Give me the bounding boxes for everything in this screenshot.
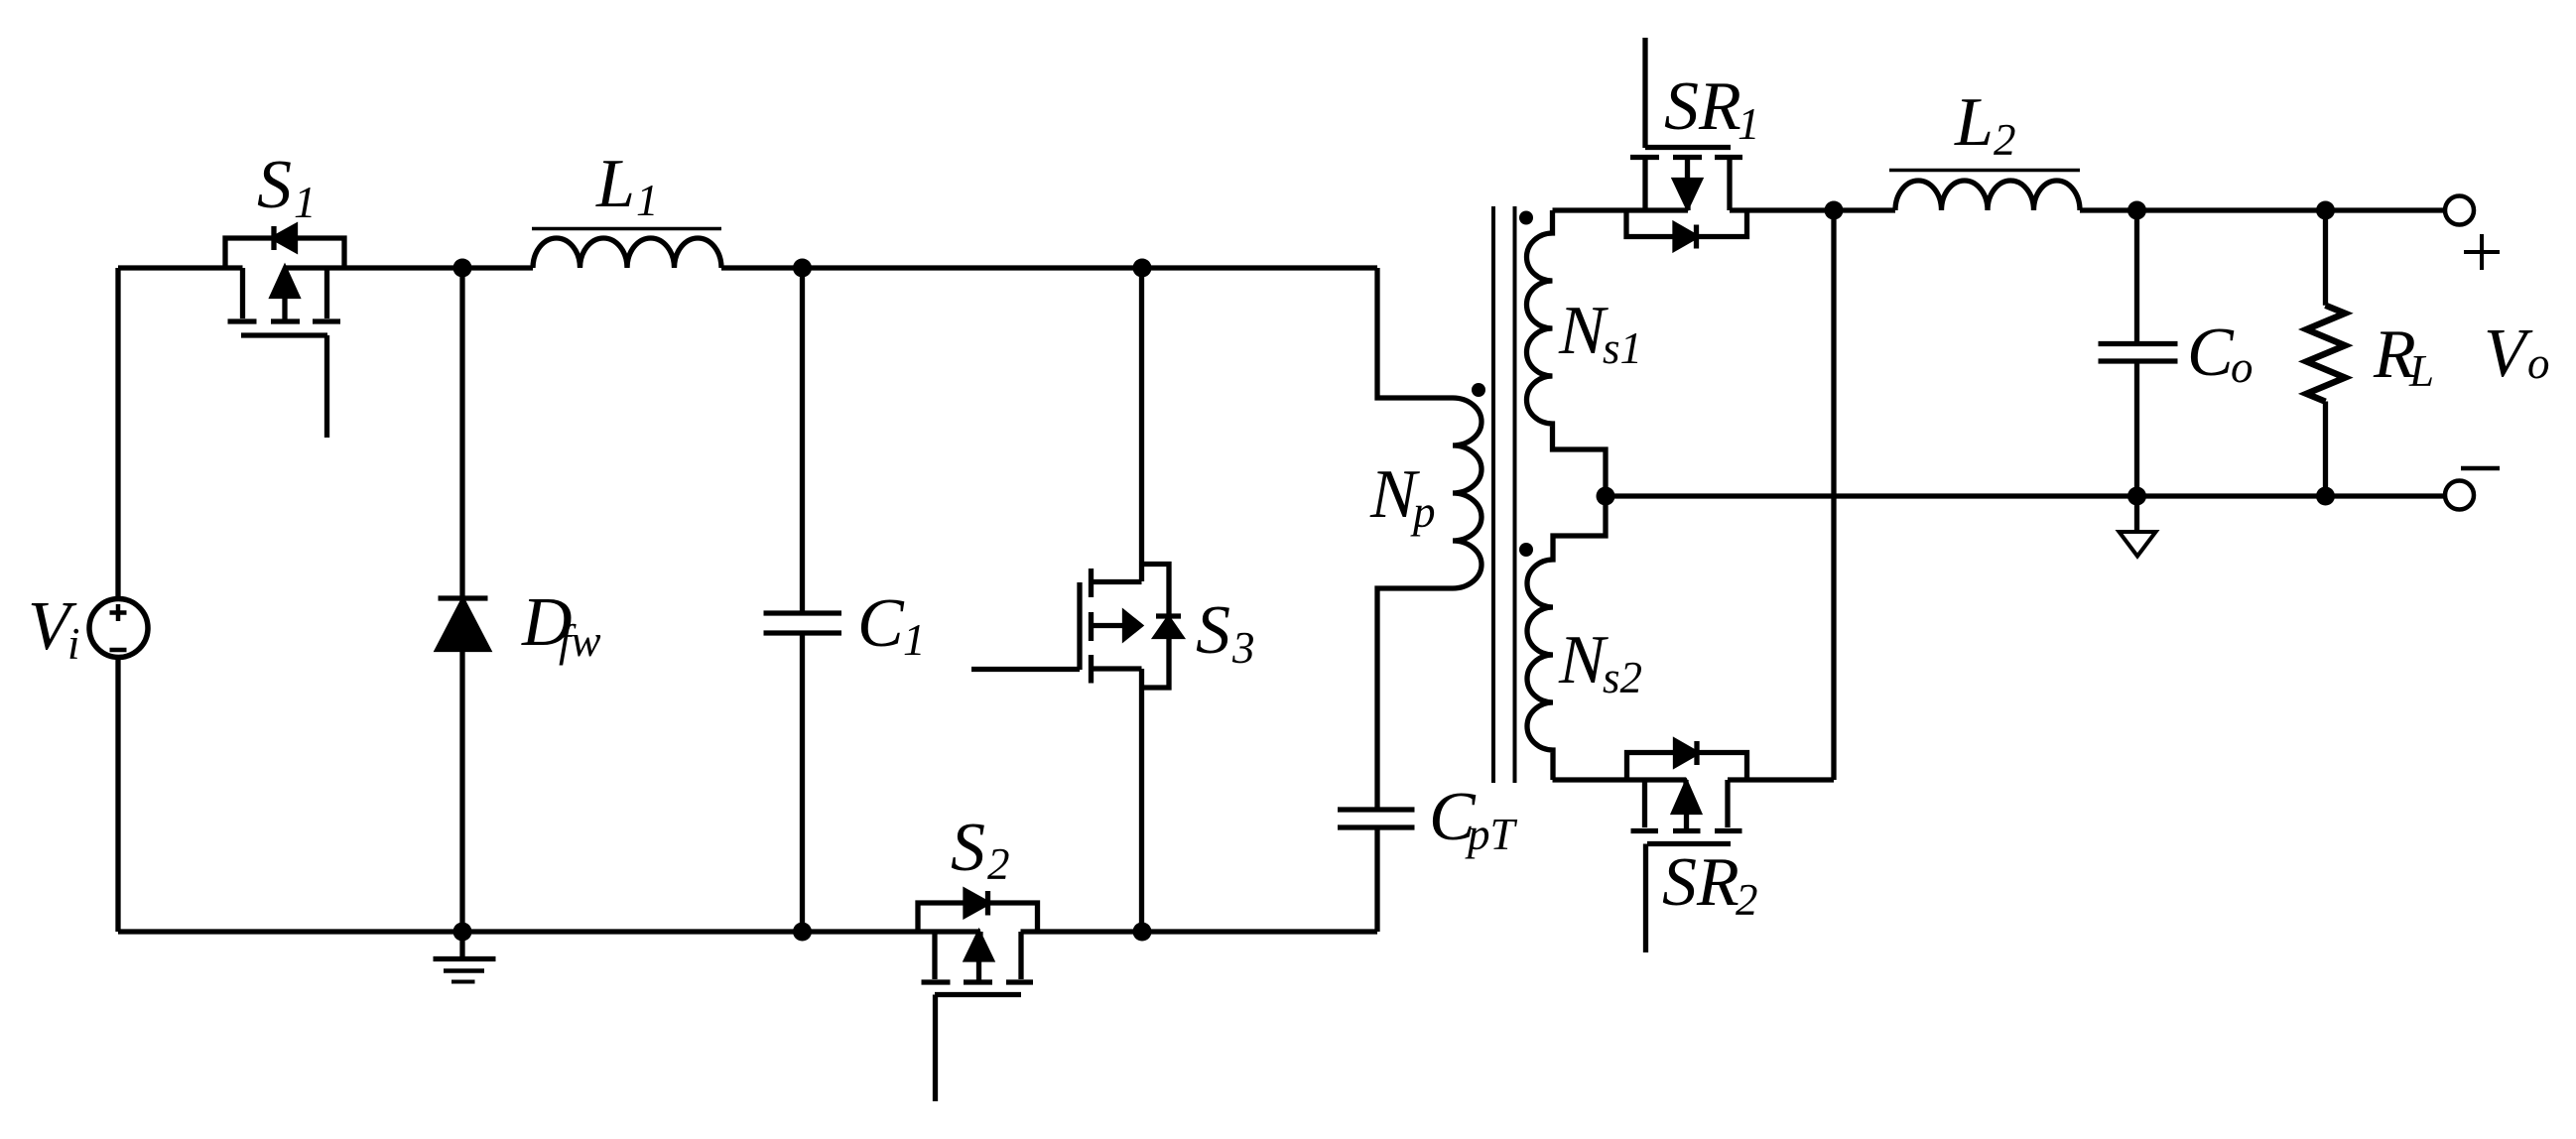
inductor L1: [532, 229, 721, 269]
node dot center tap: [1597, 487, 1615, 506]
svg-text:V: V: [2484, 316, 2533, 392]
ground output: [2120, 496, 2156, 557]
wire bottom rail left segment: [118, 929, 980, 934]
label L2: [1954, 84, 2016, 165]
label S3: [1196, 592, 1255, 673]
node dot F (S3 bottom / S2 drain): [1133, 923, 1152, 942]
label CpT: [1429, 779, 1518, 859]
svg-text:L: L: [1954, 84, 1994, 161]
wire left vertical upper: [115, 268, 120, 599]
node dot J (Co bottom / ground): [2127, 487, 2146, 506]
svg-text:1: 1: [636, 176, 659, 225]
svg-text:s2: s2: [1603, 653, 1642, 702]
winding Ns1: [1527, 210, 1606, 496]
winding Ns2: [1527, 496, 1606, 780]
transistor S2: [918, 891, 1038, 1101]
wire output node vertical: [1831, 210, 1836, 780]
label Dfw: [521, 584, 601, 666]
node dot E (S3 top): [1133, 259, 1152, 278]
svg-text:s1: s1: [1603, 323, 1642, 373]
svg-text:o: o: [2231, 342, 2254, 392]
wire secondary top right segment: [1730, 207, 1834, 212]
polarity dot Ns2: [1519, 543, 1533, 557]
terminal minus: [2445, 481, 2474, 510]
transformer core: [1493, 206, 1515, 783]
svg-text:S: S: [257, 147, 292, 223]
wire SR2 right segment: [1728, 777, 1834, 782]
svg-text:L: L: [2408, 346, 2434, 396]
wire output bottom: [1606, 493, 2445, 498]
capacitor CpT: [1338, 810, 1415, 932]
transistor SR1: [1626, 38, 1747, 249]
label Co: [2187, 315, 2254, 392]
svg-text:N: N: [1558, 293, 1609, 369]
label SR2: [1662, 844, 1758, 925]
node dot H (Co top): [2127, 201, 2146, 220]
voltage source Vi: [89, 599, 148, 658]
svg-text:C: C: [2187, 315, 2235, 391]
svg-text:p: p: [1410, 487, 1436, 537]
label Np: [1369, 456, 1436, 537]
node dot A (L1 left / Dfw top): [453, 259, 472, 278]
inductor L2: [1889, 171, 2080, 211]
label Ns2: [1558, 622, 1642, 702]
polarity dot Np: [1472, 383, 1485, 397]
wire bottom rail right segment: [1021, 929, 1378, 934]
wire top rail middle segment: [284, 265, 533, 270]
node dot I (RL top): [2316, 201, 2335, 220]
transistor SR2: [1627, 741, 1747, 952]
wire top rail left segment: [118, 265, 243, 270]
svg-text:3: 3: [1231, 623, 1255, 673]
winding Np: [1377, 268, 1481, 810]
svg-text:2: 2: [1736, 875, 1758, 925]
svg-text:o: o: [2527, 338, 2550, 388]
capacitor C1: [764, 268, 842, 932]
label RL: [2373, 316, 2434, 396]
node dot B (Dfw bottom / ground): [453, 923, 472, 942]
svg-text:2: 2: [1994, 115, 2016, 165]
label SR1: [1664, 68, 1760, 149]
wire secondary top left segment: [1553, 207, 1689, 212]
svg-text:SR: SR: [1662, 844, 1739, 921]
node dot D (C1 bottom): [793, 923, 812, 942]
node dot G (SR1 / L2): [1825, 201, 1844, 220]
svg-text:L: L: [595, 146, 635, 222]
wire left vertical lower: [115, 658, 120, 933]
diode Dfw: [438, 268, 488, 932]
wire SR2 left segment: [1553, 777, 1687, 782]
label C1: [857, 585, 926, 665]
node dot K (RL bottom): [2316, 487, 2335, 506]
minus sign: [2461, 466, 2500, 471]
wire L2 left stub: [1834, 207, 1895, 212]
svg-text:2: 2: [987, 839, 1010, 889]
transistor S1: [225, 226, 344, 438]
label S1: [257, 147, 317, 227]
polarity dot Ns1: [1519, 211, 1533, 225]
svg-text:1: 1: [1738, 99, 1760, 149]
plus sign: [2464, 234, 2500, 270]
svg-text:S: S: [951, 810, 985, 886]
terminal plus: [2445, 196, 2474, 225]
svg-text:1: 1: [294, 178, 317, 227]
label L1: [595, 146, 659, 225]
resistor RL: [2306, 210, 2345, 496]
wire top rail right segment: [721, 265, 1377, 270]
capacitor Co: [2099, 210, 2178, 496]
svg-text:i: i: [67, 619, 80, 669]
transistor S3: [971, 268, 1181, 932]
label Ns1: [1558, 293, 1642, 373]
wire secondary output top: [2080, 207, 2445, 212]
svg-text:C: C: [857, 585, 905, 662]
label S2: [951, 810, 1010, 889]
svg-text:SR: SR: [1664, 68, 1741, 145]
svg-text:1: 1: [903, 615, 926, 665]
svg-text:pT: pT: [1465, 810, 1518, 859]
label Vi: [28, 588, 80, 669]
svg-text:fw: fw: [559, 616, 601, 666]
node dot C (C1 top): [793, 259, 812, 278]
label Vo: [2484, 316, 2550, 392]
svg-text:N: N: [1558, 622, 1609, 698]
ground: [434, 932, 496, 982]
svg-text:S: S: [1196, 592, 1230, 669]
